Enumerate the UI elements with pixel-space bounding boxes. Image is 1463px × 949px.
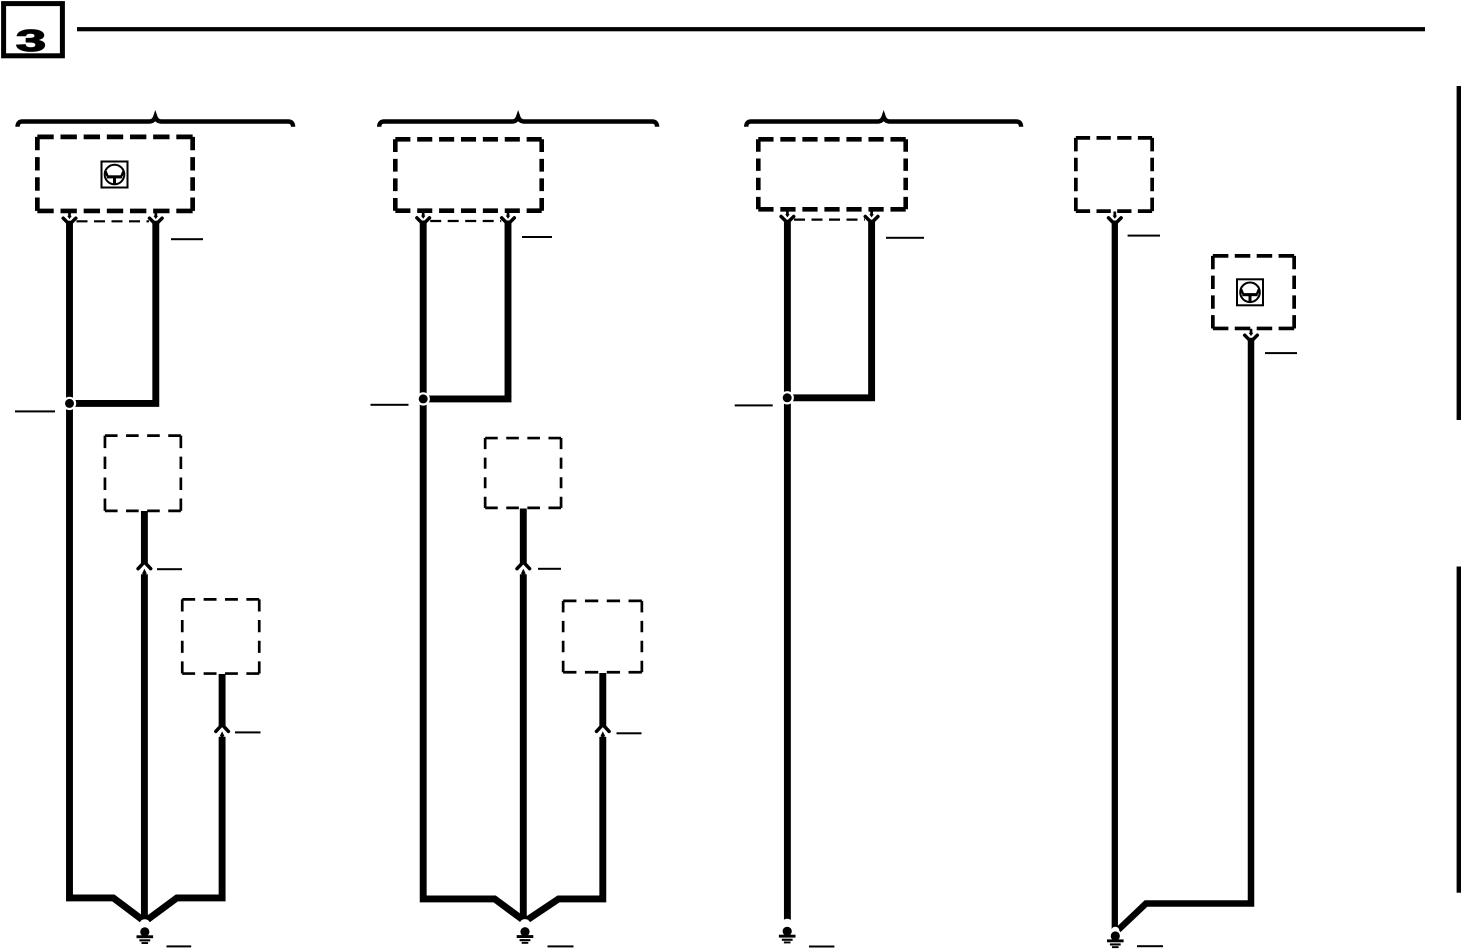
splice S3 label <box>735 404 773 406</box>
wire label w5 <box>1265 352 1297 354</box>
splice S2 <box>417 392 430 405</box>
connector X2 label <box>157 568 182 570</box>
connector housing X7 (thin dashed) <box>794 219 865 221</box>
ground G3 label <box>809 946 834 948</box>
connector pin/socket A4 pin 1 <box>1109 212 1122 224</box>
in-line connector X6 <box>597 726 610 740</box>
component A3 (dashed outline) <box>758 139 905 209</box>
brace over component A3 <box>746 117 1021 127</box>
connector pin/socket A1 pin 2 <box>150 212 163 224</box>
in-line connector X5 <box>517 563 530 577</box>
connector pin/socket B4 pin 1 <box>1245 329 1258 341</box>
splice S1 label <box>15 410 55 412</box>
connector housing X4 (thin dashed) <box>430 220 501 222</box>
wire label w3 <box>886 237 924 239</box>
wire A2.1 down to ground <box>423 221 525 922</box>
connector pin/socket A1 pin 1 <box>63 212 76 224</box>
connector pin/socket A3 pin 2 <box>865 210 878 222</box>
wire A3.2 to splice S3 <box>790 220 871 398</box>
page number box <box>4 4 63 56</box>
ground G1 label <box>167 945 192 947</box>
brace over component A2 <box>379 117 657 127</box>
wire B2 lower segment to ground <box>520 574 527 921</box>
wire B2 upper segment <box>520 509 527 564</box>
wire label w2 <box>522 236 552 238</box>
in-line connector X2 <box>138 563 151 577</box>
component A4 (dashed outline) <box>1076 138 1152 211</box>
wire A4 down to ground <box>1112 221 1118 930</box>
connector X3 label <box>235 731 261 733</box>
connector pin/socket A2 pin 2 <box>502 212 515 224</box>
ground G2 label <box>548 945 574 947</box>
wire label w1 <box>171 238 203 240</box>
wire B4 down to ground <box>1118 338 1251 930</box>
wire C2 upper segment <box>599 673 606 726</box>
connector pin/socket A2 pin 1 <box>417 212 430 224</box>
connector X5 label <box>538 568 561 570</box>
component C1 (dashed outline) <box>182 599 259 673</box>
wire A1.2 to splice S1 <box>72 221 156 404</box>
wire A3.1 down to ground <box>784 220 791 924</box>
ground G1 <box>137 919 154 944</box>
splice S3 <box>781 391 794 404</box>
in-line connector X3 <box>216 726 229 740</box>
wire B1 upper segment <box>141 511 148 564</box>
right margin bar upper <box>1457 86 1461 420</box>
wire A1.1 down to ground <box>70 221 145 922</box>
component B2 (dashed outline) <box>485 438 561 508</box>
connector pin/socket A3 pin 1 <box>781 210 794 222</box>
component A1 (dashed outline) <box>37 137 192 211</box>
ground G3 <box>779 919 796 944</box>
steering-column icon in B4 <box>1237 279 1263 305</box>
splice S1 <box>63 397 76 410</box>
right margin bar lower <box>1457 567 1461 893</box>
wire A2.2 to splice S2 <box>426 221 508 399</box>
component B4 (dashed outline) <box>1213 256 1294 329</box>
svg-text:3: 3 <box>16 24 46 58</box>
wire B1 lower segment to ground <box>141 574 148 921</box>
component C2 (dashed outline) <box>563 601 642 672</box>
wire C1 lower segment to ground <box>145 737 222 922</box>
connector X6 label <box>617 732 642 734</box>
wire C2 lower segment to ground <box>525 737 603 922</box>
brace over component A1 <box>18 117 294 127</box>
top rule <box>77 27 1425 31</box>
ground G4 <box>1107 927 1124 948</box>
wire C1 upper segment <box>219 674 226 726</box>
component B1 (dashed outline) <box>105 436 181 511</box>
component A2 (dashed outline) <box>395 139 541 210</box>
splice S2 label <box>371 404 409 406</box>
ground G4 label <box>1137 945 1163 947</box>
wire label w4 <box>1128 235 1160 237</box>
ground G2 <box>517 919 534 944</box>
steering-column icon in A1 <box>102 162 128 188</box>
connector housing X1 (thin dashed) <box>77 220 150 222</box>
